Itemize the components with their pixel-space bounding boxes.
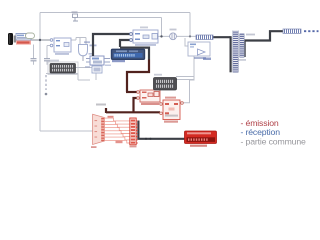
svg-text:- partie commune: - partie commune xyxy=(241,136,307,146)
